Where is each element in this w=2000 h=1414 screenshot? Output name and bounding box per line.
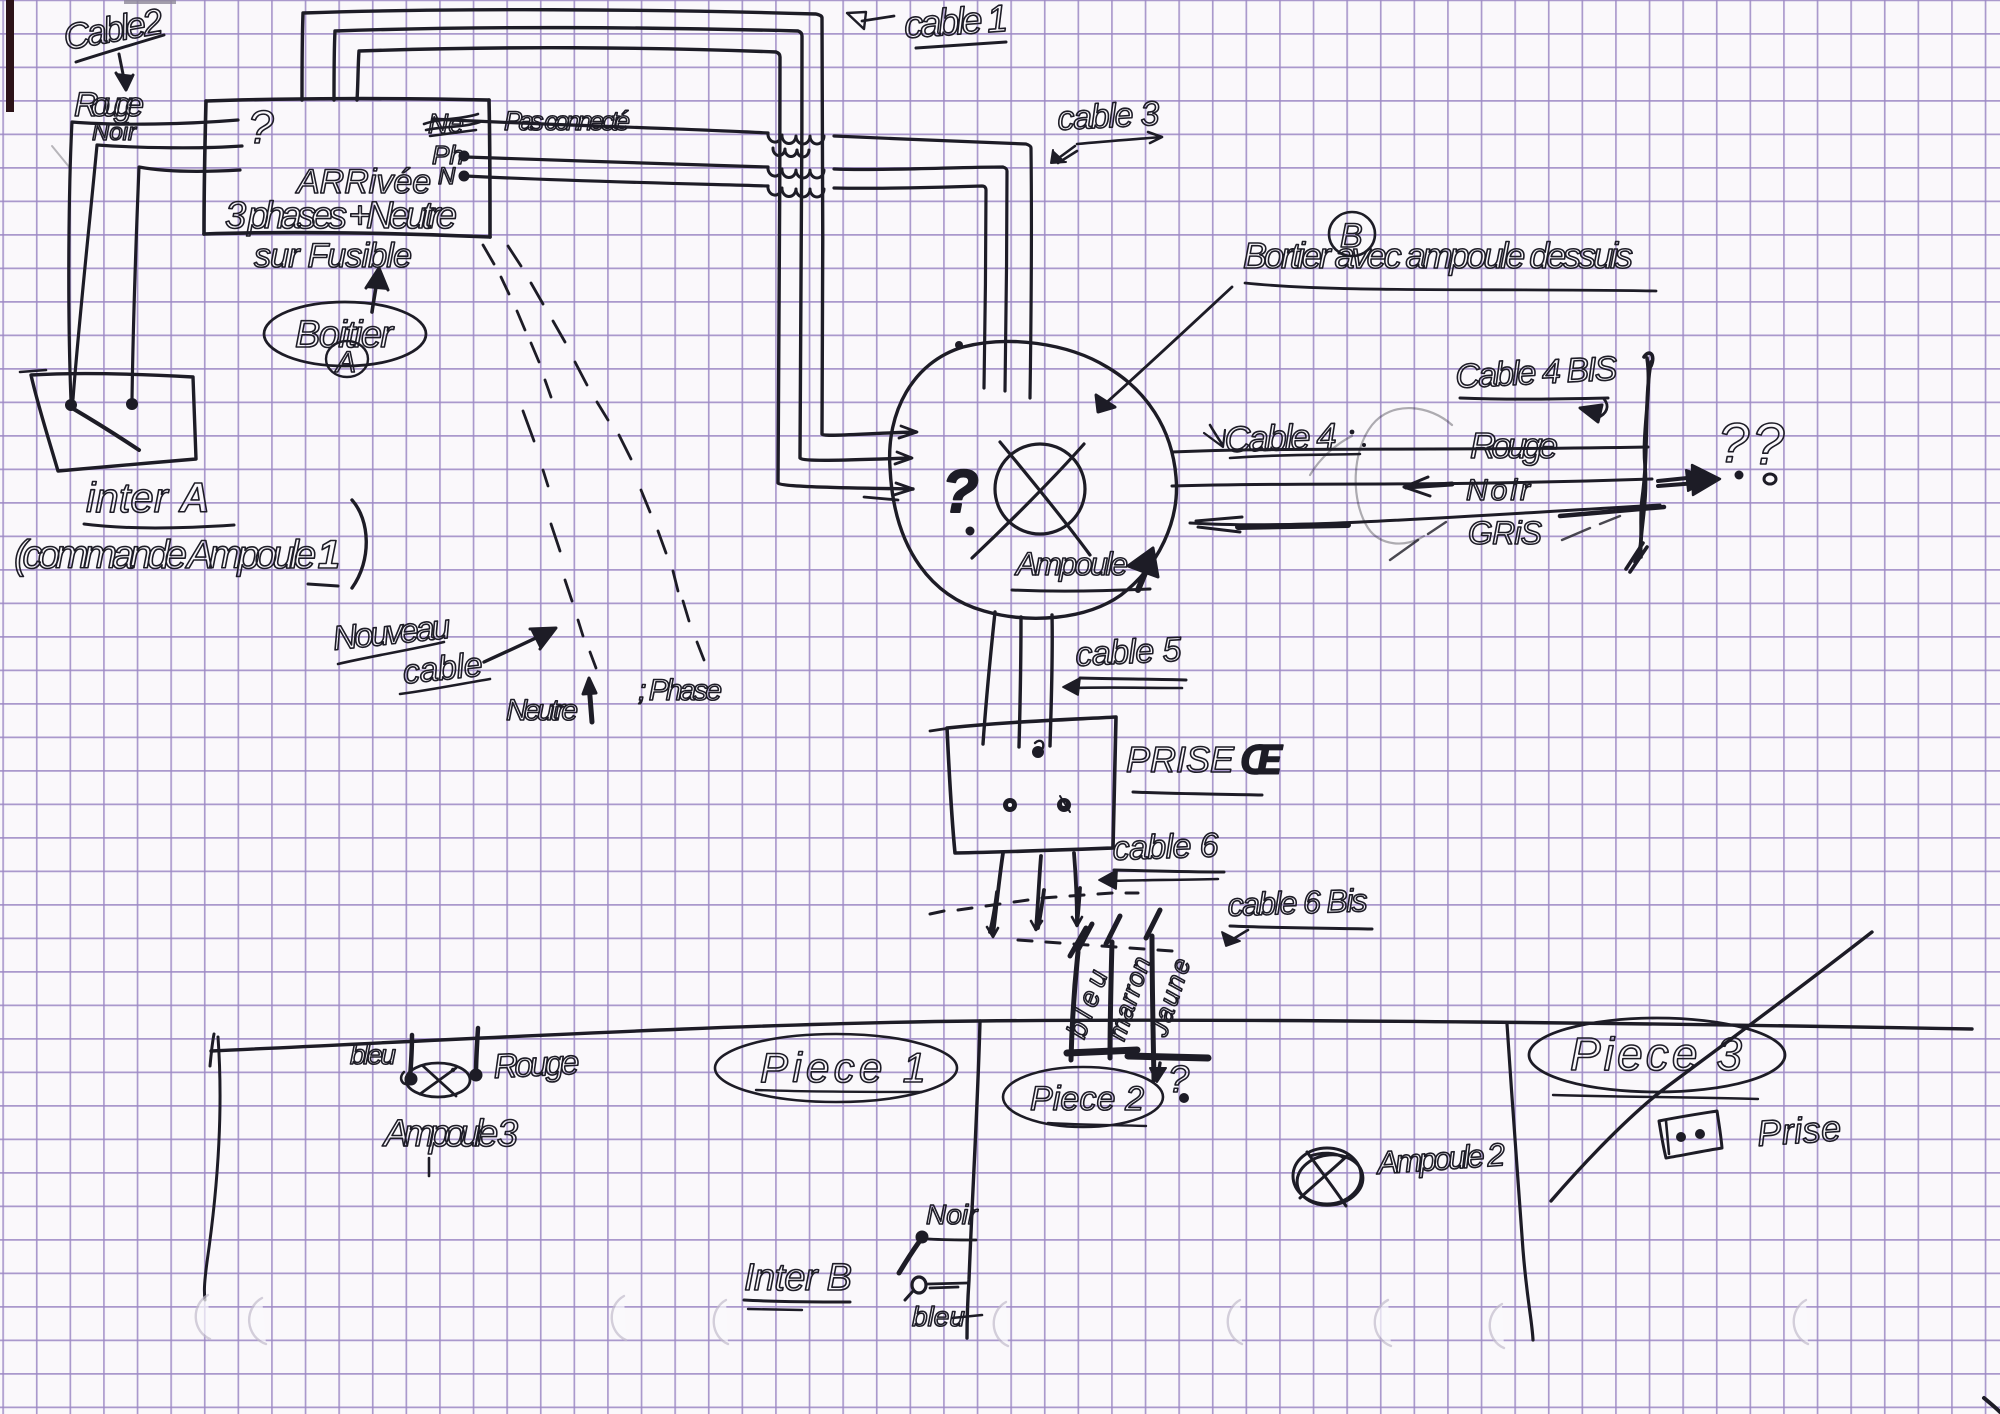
lamp ampoule 1 symbol inside boitier B	[972, 442, 1090, 558]
label oval Boitier A	[264, 302, 426, 379]
scan artifact dark margin bar top-left	[6, 0, 176, 112]
svg-text:Œ: Œ	[1240, 736, 1284, 783]
label oval Piece 2	[1003, 1067, 1163, 1127]
wire rouge: from boitier A left side to inter A terminal 1	[69, 120, 238, 401]
wire third conductor from boitier A left	[132, 167, 240, 400]
svg-text:Pas connecté: Pas connecté	[504, 106, 630, 136]
faint pencil mark left	[52, 146, 70, 168]
wire noir: from boitier A left side down to inter A terminal 2	[73, 145, 242, 399]
svg-text:Noir: Noir	[926, 1199, 979, 1230]
svg-text:3 phases +Neutre: 3 phases +Neutre	[225, 195, 457, 237]
prise socket box in piece 3	[1659, 1111, 1722, 1158]
prise C pin top	[1032, 741, 1044, 758]
svg-text:Inter B: Inter B	[744, 1257, 852, 1299]
svg-text:; Phase: ; Phase	[638, 674, 722, 707]
svg-text:inter A: inter A	[86, 474, 210, 521]
svg-text:GRiS: GRiS	[1468, 515, 1542, 551]
svg-text:cable 3: cable 3	[1056, 95, 1160, 138]
binding hole artifacts bottom	[196, 1295, 1808, 1348]
arrow pointing up to boitier A from label	[366, 268, 388, 312]
prise C pin right	[1057, 796, 1071, 812]
label oval Piece 3	[1529, 1018, 1785, 1099]
small bold arrow below terminal bar	[1150, 1063, 1166, 1082]
label B circled	[1329, 212, 1375, 256]
boitier B enclosure blob	[890, 341, 1177, 618]
label cable 6 with underline and arrow	[1099, 826, 1224, 889]
svg-text:Bortier avec ampoule dessuis: Bortier avec ampoule dessuis	[1243, 235, 1633, 276]
label inter A	[84, 474, 234, 528]
cable 1 wire b	[334, 28, 911, 461]
pointer line from label B to boitier B	[1096, 287, 1232, 412]
lamp ampoule 3 drop wire bleu	[401, 1035, 417, 1086]
label cable 3 with arrow underline	[1056, 95, 1162, 144]
svg-text:PRISE: PRISE	[1126, 739, 1235, 780]
svg-text:Ampoule: Ampoule	[1014, 546, 1128, 582]
svg-text:?: ?	[1718, 411, 1749, 474]
svg-text:Prise: Prise	[1756, 1107, 1843, 1154]
svg-text:Rouge: Rouge	[492, 1044, 580, 1086]
cable 5 wire b	[1019, 617, 1021, 747]
svg-text:bleu: bleu	[350, 1039, 396, 1070]
switch inter B	[899, 1231, 976, 1301]
cable 5 wire c	[1050, 615, 1052, 746]
svg-text:N: N	[438, 163, 456, 190]
svg-text:Ampoule 3: Ampoule 3	[382, 1113, 518, 1155]
cable 6 wire a below prise C	[990, 853, 1003, 935]
label Ampoule 3	[382, 1113, 518, 1176]
svg-text:Piece 2: Piece 2	[1030, 1080, 1144, 1118]
svg-text:cable 1: cable 1	[903, 0, 1010, 47]
label Neutre with bold up arrow	[506, 678, 596, 727]
left wall vertical	[204, 1037, 220, 1300]
label bleu (inter B)	[912, 1301, 982, 1332]
wire jaune vertical drop	[1146, 910, 1160, 1080]
svg-text:Noir: Noir	[1466, 474, 1531, 507]
label (commande Ampoule 1)	[14, 500, 366, 588]
cable 6 wire b	[1036, 856, 1044, 929]
svg-text:cable 6: cable 6	[1112, 826, 1219, 868]
cable 1 wire c	[357, 48, 913, 489]
cable 1 wire a: boitier A top to hooks then into boitier B left	[302, 10, 916, 436]
bold arrow to the right of junction	[1658, 465, 1720, 495]
switch inter A lever	[72, 408, 139, 450]
svg-text:Neutre: Neutre	[506, 694, 578, 727]
wall divider piece2/piece3	[1507, 1024, 1533, 1340]
label PRISE C underlined	[1126, 736, 1284, 795]
wire N run to boitier B	[466, 176, 986, 388]
label cable 1 with underline	[903, 0, 1010, 48]
cable 5 wire a from boitier B down to prise C	[983, 612, 995, 744]
junction wall scribble vertical	[1626, 353, 1653, 572]
node: inter A terminal 2	[126, 398, 138, 410]
dashed new-cable route line 2 (phase)	[508, 246, 704, 660]
dashed hidden run row 1	[930, 893, 1138, 914]
svg-text:sur Fusible: sur Fusible	[254, 237, 412, 275]
question marks unknown destination	[1718, 411, 1785, 484]
bold terminal bar in piece 2	[1067, 1050, 1208, 1058]
boitier A junction box enclosure	[204, 99, 490, 237]
label Cable 4 BIS with underline and hook arrow	[1454, 350, 1618, 422]
node: inter A terminal 1	[65, 399, 77, 411]
small arrow pointing down-left at cable 3 corner	[1051, 146, 1077, 163]
prise C pin left	[1003, 798, 1017, 812]
svg-text:(commande Ampoule 1: (commande Ampoule 1	[14, 533, 340, 577]
label Nouveau cable with arrow	[331, 608, 556, 694]
label Inter B underlined	[744, 1257, 852, 1310]
cable 6 wire c	[1074, 853, 1080, 925]
wall divider piece1/piece2	[967, 1021, 980, 1338]
lamp ampoule 3 drop wire rouge	[470, 1028, 483, 1082]
svg-text:?: ?	[942, 458, 979, 525]
cable 4 wire noir with left arrow	[1172, 477, 1652, 496]
terminal Ph label and pin	[432, 140, 470, 170]
cable 4 wire rouge from boitier B to right junction	[1172, 447, 1648, 452]
wire bleu vertical drop to piece2	[1070, 924, 1092, 1060]
dashed hidden run row 2	[1018, 940, 1172, 951]
question mark inside boitier B	[942, 458, 979, 536]
node dot at boitier B top	[955, 341, 963, 349]
svg-text:Rouge: Rouge	[1470, 425, 1558, 466]
svg-text:cable 6 Bis: cable 6 Bis	[1227, 882, 1368, 923]
label Cable 4 with small arrow	[1204, 415, 1366, 460]
lamp ampoule 2 symbol	[1293, 1148, 1366, 1209]
svg-text:cable 5: cable 5	[1074, 630, 1182, 673]
svg-text:A: A	[334, 346, 356, 379]
scratched-out label Ne (pas connecte terminal)	[424, 108, 480, 139]
faint dash marks under gris wire	[1390, 516, 1620, 560]
wire marron vertical drop	[1106, 916, 1120, 1058]
svg-text:?: ?	[248, 101, 274, 153]
label cable 6 Bis with underline and arrow	[1222, 882, 1372, 946]
label cable 5 with underline and arrow	[1063, 630, 1186, 695]
label Ampoule 1 with underline and bold arrow	[1012, 546, 1158, 591]
big diagonal stroke across piece 3	[1551, 932, 1872, 1201]
faint erased pencil oval near cable 4	[1310, 408, 1452, 543]
question mark below terminal bar	[1168, 1059, 1190, 1103]
wire Ph run to boitier B	[466, 157, 1007, 391]
lamp ampoule 3 symbol	[406, 1063, 470, 1097]
junction hooks where cable1 meets cable3 wires	[768, 133, 824, 197]
wire pas-connecte run: boitier A right to corner then down into boitier B	[433, 119, 1031, 398]
switch inter A enclosure box	[31, 374, 196, 471]
dashed new-cable route line 1 (neutre)	[483, 245, 596, 668]
svg-text:?: ?	[1752, 412, 1785, 477]
arrow from Cable2 label down to Rouge wire	[116, 54, 133, 90]
label Boitier avec ampoule dessus	[1243, 235, 1656, 291]
main wall horizontal of floor plan	[211, 1020, 1972, 1051]
terminal N label and pin	[438, 163, 470, 190]
label oval Piece 1	[715, 1034, 957, 1102]
arrow pointing at cable 1 bundle	[847, 12, 894, 29]
scan mark bottom right corner	[1984, 1398, 2000, 1412]
svg-text:Cable 4: Cable 4	[1224, 415, 1337, 460]
prise C enclosure box	[947, 717, 1116, 853]
cable 4 wire gris heavy stroked	[1190, 505, 1664, 532]
svg-text:Piece 3: Piece 3	[1570, 1028, 1742, 1080]
label Cable2	[60, 0, 166, 62]
arrowheads on cable 6 wires	[987, 917, 1082, 937]
arrow ticks entering boitier B from cable1 wires	[864, 426, 917, 500]
